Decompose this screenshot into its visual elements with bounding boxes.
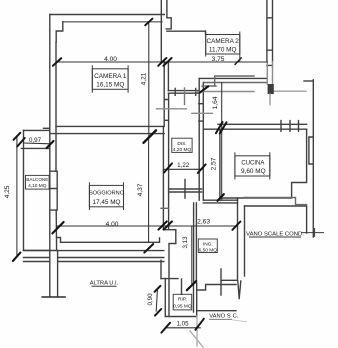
wall poche blob — [268, 84, 274, 94]
wall top outer camera1 — [50, 14, 165, 16]
door taper entrance — [238, 281, 241, 299]
window tick ing bottom — [220, 269, 222, 295]
wall top-left inner step — [56, 22, 63, 42]
tick 1,22 right — [198, 164, 206, 173]
tick 4.00 top left — [53, 58, 61, 66]
tick rip door — [187, 281, 196, 290]
tick 4,21 bottom big — [144, 130, 157, 142]
svg-text:ALTRA U.I.: ALTRA U.I. — [90, 280, 119, 286]
dis bottom wall — [169, 189, 202, 192]
wall corridor to ing double — [203, 200, 237, 203]
wall mid left face lower — [162, 126, 164, 229]
dim line top 4.00/3.75 — [57, 61, 268, 63]
faint hall line — [196, 91, 254, 93]
faint diag bottom — [190, 331, 203, 347]
tick 0,97 right — [47, 141, 54, 148]
tick 0,97 left — [17, 138, 25, 147]
wall left outer — [49, 15, 51, 297]
rung left wall pair — [161, 207, 169, 209]
label camera2 box — [206, 32, 240, 62]
wall bottom upper face — [24, 249, 164, 251]
wall stub left balcone top — [44, 127, 50, 129]
svg-text:16,15 MQ: 16,15 MQ — [96, 81, 124, 88]
svg-text:4,25: 4,25 — [4, 185, 11, 198]
svg-text:BALCONE: BALCONE — [26, 177, 48, 182]
svg-text:4,21: 4,21 — [141, 72, 148, 85]
svg-text:4,37: 4,37 — [137, 183, 144, 196]
wall bottom double lower — [24, 261, 164, 263]
svg-text:RIP.: RIP. — [178, 297, 187, 303]
dim line 4,21 / 4,37 vertical — [148, 22, 150, 242]
window tick dis bottom — [184, 180, 186, 199]
dim line 1,22 — [163, 168, 202, 170]
svg-text:CAMERA 1: CAMERA 1 — [94, 73, 127, 80]
cucina left wall — [219, 129, 221, 198]
label cucina box — [235, 152, 270, 179]
svg-text:C.: C. — [233, 313, 239, 319]
wall above cucina upper — [199, 77, 267, 79]
svg-text:4,10 MQ: 4,10 MQ — [28, 183, 47, 189]
wall camera2 bottom ledge — [167, 30, 205, 32]
dim line 4,25 vertical — [16, 136, 18, 255]
svg-text:2,57: 2,57 — [211, 157, 218, 170]
dimension slash ticks — [13, 19, 241, 333]
ing right wall — [238, 198, 245, 279]
svg-text:11,70 MQ: 11,70 MQ — [209, 47, 237, 54]
tick 1,22 left — [164, 163, 172, 172]
svg-text:0,90: 0,90 — [147, 293, 154, 306]
svg-text:0,97: 0,97 — [29, 137, 42, 144]
balcone bottom — [24, 250, 58, 252]
window balcone door left wall — [51, 171, 58, 210]
wall mid left face — [163, 62, 165, 127]
cucina bottom upper line — [220, 129, 307, 198]
tick 1,05 left — [161, 323, 170, 333]
dim line 1,64 / 2,57 vertical — [221, 83, 223, 201]
tick 4,37 bottom — [144, 244, 153, 253]
wall below window faint — [267, 62, 272, 84]
vano scale top wall — [245, 206, 307, 233]
svg-text:2,63: 2,63 — [197, 218, 210, 225]
window tick rip top — [181, 279, 183, 294]
wall mid right face below door — [168, 93, 170, 229]
ing bottom threshold — [198, 285, 236, 291]
wall above cucina lower — [204, 82, 267, 84]
tick soggiorno 4.00 left — [52, 222, 63, 233]
tick 4.00/3.75 double — [158, 58, 171, 66]
tick 0,90 bottom — [155, 309, 161, 316]
svg-text:VANO SCALE COND.: VANO SCALE COND. — [246, 231, 304, 237]
window right wall — [309, 137, 313, 164]
svg-text:SOGGIORNO: SOGGIORNO — [89, 191, 125, 197]
centerline tick — [184, 88, 186, 105]
svg-text:3,13: 3,13 — [182, 236, 189, 249]
ing left wall — [194, 203, 197, 284]
wall bottom double upper — [24, 257, 164, 259]
balcone top inner line — [21, 147, 49, 149]
svg-text:0,95 MQ: 0,95 MQ — [173, 304, 192, 310]
door step hall — [202, 76, 254, 86]
rungs mid wall — [164, 100, 168, 121]
tick 2,63 right — [232, 222, 240, 230]
right outer wall — [312, 80, 314, 237]
door leaf dis — [157, 108, 187, 110]
svg-text:4,20 MQ: 4,20 MQ — [173, 147, 192, 153]
balcone left wall — [23, 130, 25, 250]
dim line 1,05 — [165, 327, 200, 329]
svg-text:6,50 MQ: 6,50 MQ — [199, 248, 218, 254]
right wall top tick — [304, 80, 313, 82]
faint vert bottom — [196, 316, 198, 346]
cucina bottom step lower — [244, 198, 307, 205]
wall soggiorno right jog — [163, 230, 175, 317]
door leaf dis right — [192, 112, 213, 114]
svg-text:1,64: 1,64 — [212, 96, 219, 109]
wall camera1 bottom outer — [50, 133, 164, 135]
tick 1,64-2,57 double — [216, 122, 227, 133]
svg-text:4.00: 4.00 — [106, 221, 119, 228]
window ticks cucina top — [281, 121, 299, 132]
label ing box — [198, 239, 217, 254]
wall spur end cap — [42, 296, 65, 298]
wall right of altra ui — [160, 260, 162, 278]
window wall camera2 right — [267, 0, 273, 65]
ing right small ledge — [222, 279, 238, 281]
tick 0,90 top — [155, 286, 161, 292]
wall soggiorno bottom inner — [57, 238, 160, 243]
label rip box — [173, 294, 192, 310]
svg-text:1,05: 1,05 — [176, 321, 189, 328]
svg-text:DIS.: DIS. — [177, 141, 186, 147]
faint hall line right — [274, 90, 306, 92]
svg-text:ING.: ING. — [203, 242, 213, 248]
wall faint below blob — [269, 94, 271, 105]
wall camera1 bottom inner — [56, 125, 164, 127]
wall spur altra ui left — [57, 251, 59, 297]
tick 4,25 bottom — [13, 253, 21, 261]
corridor right wall — [199, 78, 203, 200]
svg-text:CAMERA 2: CAMERA 2 — [207, 38, 240, 45]
dim line 0,97 — [24, 142, 50, 145]
wall top inner camera1 — [63, 21, 162, 23]
svg-text:9,60 MQ: 9,60 MQ — [241, 168, 266, 175]
rip top wall — [161, 278, 178, 280]
dimension lines group — [17, 22, 267, 328]
dim line 0,90 vertical — [156, 288, 157, 311]
svg-text:VANO S: VANO S — [209, 313, 231, 319]
tick 4,25 top — [14, 133, 21, 140]
window ticks dis top — [175, 89, 196, 96]
label soggiorno box — [89, 182, 125, 210]
label dis box — [172, 138, 192, 153]
tick 1,05 right — [195, 319, 203, 330]
cucina top wall lower — [203, 128, 306, 130]
svg-text:4.00: 4.00 — [104, 56, 117, 63]
cucina top wall upper — [218, 123, 307, 125]
vano sc bottom wall — [197, 310, 236, 312]
svg-text:3,75: 3,75 — [212, 56, 225, 63]
svg-text:1,22: 1,22 — [177, 162, 190, 169]
tick 2,57 bottom — [218, 194, 224, 201]
tick camera2 ledge end — [205, 31, 207, 35]
wall mid upper left face — [160, 0, 162, 62]
label camera1 box — [92, 65, 128, 93]
wall mid upper right face with jog — [166, 0, 171, 29]
label balcone box — [26, 175, 50, 189]
tick 4,21 top — [145, 19, 152, 26]
wall left inner face — [55, 42, 58, 250]
tick 2,63 double — [158, 221, 172, 229]
wall mid right face upper — [167, 63, 169, 91]
tick 3.75 right — [235, 58, 241, 65]
rip outer walls — [165, 279, 196, 317]
balcone top rail — [24, 129, 50, 131]
corridor wall rungs — [199, 104, 203, 121]
rip inner right — [193, 284, 195, 313]
dim line soggiorno 4.00 / 2,63 — [57, 225, 238, 227]
tick 1,64 top — [200, 86, 208, 92]
svg-text:17,45 MQ: 17,45 MQ — [92, 199, 120, 206]
door threshold dis top — [168, 91, 199, 94]
dim line 3,13 vertical — [191, 227, 193, 284]
svg-text:CUCINA: CUCINA — [241, 161, 264, 167]
